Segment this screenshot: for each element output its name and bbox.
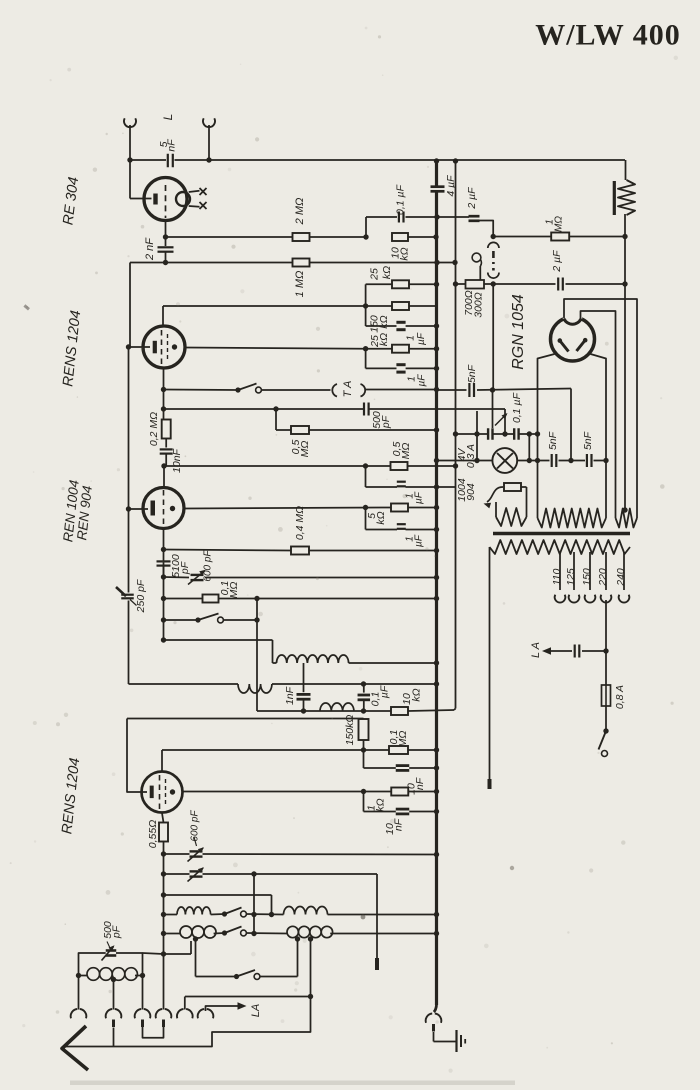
capacitor 5100pF bbox=[157, 554, 191, 578]
svg-text:150kΩ: 150kΩ bbox=[344, 715, 356, 746]
wire lamp bridge left bbox=[474, 411, 479, 463]
svg-text:5nF: 5nF bbox=[466, 364, 478, 383]
wire row711 bbox=[257, 708, 454, 713]
wire row349 bbox=[185, 346, 439, 351]
wire row550 bbox=[164, 548, 440, 553]
svg-text:110: 110 bbox=[551, 568, 563, 585]
capacitor 5nF row390 bbox=[466, 364, 478, 397]
tube RENS1204b envelope bbox=[142, 772, 183, 813]
svg-text:kΩ: kΩ bbox=[378, 333, 390, 346]
tube RE304 grid dash line bbox=[165, 185, 167, 218]
capacitor 10nF b bbox=[364, 792, 440, 835]
resistor 150k vertical bbox=[344, 715, 369, 753]
svg-text:2 µF: 2 µF bbox=[466, 187, 478, 210]
wire row430 bbox=[276, 427, 439, 432]
tube RGN1054 filament left bbox=[558, 338, 569, 351]
wire stub 349-368 bbox=[365, 349, 367, 369]
svg-text:1: 1 bbox=[406, 335, 417, 341]
capacitor 0.1uF pair left bbox=[488, 428, 492, 440]
wire row284 left bbox=[366, 282, 440, 287]
switch band A bbox=[211, 908, 284, 918]
wire rowA left bbox=[164, 914, 178, 916]
tube RE 304 envelope bbox=[144, 178, 187, 221]
capacitor 4uF bbox=[431, 175, 457, 197]
antenna coil tap bbox=[111, 977, 116, 1010]
capacitor 10nF grid bbox=[160, 439, 183, 473]
tube RE304 cathode bar bbox=[153, 194, 157, 205]
wire jack3 lead bbox=[142, 976, 144, 1010]
jack 5 bbox=[177, 1009, 193, 1027]
primary winding mid bbox=[538, 509, 607, 528]
secondary winding bbox=[490, 540, 631, 554]
svg-text:kΩ: kΩ bbox=[381, 266, 393, 279]
label RENS 1204 b bbox=[59, 757, 83, 835]
wire row284 right bbox=[453, 281, 625, 286]
wire row217 bbox=[366, 214, 469, 219]
svg-text:kΩ: kΩ bbox=[410, 688, 422, 701]
svg-text:MΩ: MΩ bbox=[400, 443, 412, 460]
capacitor 2uF upper bbox=[466, 187, 480, 221]
svg-text:T A: T A bbox=[342, 381, 354, 398]
wire x571 bbox=[568, 389, 573, 464]
x mark pin 2 bbox=[200, 202, 207, 209]
pot wiper arc upper bbox=[488, 242, 499, 248]
svg-text:2 µF: 2 µF bbox=[551, 250, 563, 273]
antenna ground arrow bbox=[62, 1026, 88, 1070]
resistor 0.1M band bbox=[203, 581, 240, 603]
svg-text:µF: µF bbox=[417, 374, 428, 387]
svg-text:L: L bbox=[161, 114, 175, 121]
wire tube3 bottom bbox=[161, 529, 166, 578]
svg-text:µF: µF bbox=[414, 534, 425, 547]
coil B2 tap 1 bbox=[295, 936, 300, 976]
wire row718 grid bbox=[127, 718, 364, 720]
wire row409 bbox=[164, 406, 506, 411]
wire anode tube2 top bbox=[162, 306, 164, 326]
wire x257 down bbox=[256, 599, 258, 712]
coil band 2 bbox=[277, 655, 440, 666]
x mark pin 1 bbox=[200, 188, 207, 195]
resistor 25k b bbox=[369, 333, 409, 353]
primary winding left bbox=[496, 502, 527, 526]
fuse 0.8A bbox=[602, 685, 626, 709]
wire tube3 top bbox=[163, 466, 165, 488]
resistor 25k a bbox=[368, 266, 409, 288]
svg-text:LA: LA bbox=[250, 1004, 262, 1017]
svg-text:kΩ: kΩ bbox=[398, 247, 410, 260]
capacitor 5nF antenna bbox=[158, 139, 178, 167]
wire stub 284-326 bbox=[363, 284, 368, 326]
wire RE304 cathode bbox=[163, 221, 168, 246]
svg-text:220: 220 bbox=[597, 568, 609, 587]
jack TA right arc bbox=[361, 384, 366, 397]
pot wiper dash bbox=[492, 251, 495, 271]
svg-text:kΩ: kΩ bbox=[375, 511, 387, 524]
switch band 2 bbox=[164, 614, 260, 623]
primary winding right bbox=[616, 507, 638, 527]
svg-text:0,55Ω: 0,55Ω bbox=[147, 820, 159, 848]
wire row236 right bbox=[491, 234, 626, 239]
trimmer 250pF bbox=[116, 579, 147, 613]
jack 3 bbox=[135, 1009, 151, 1027]
capacitor 0.1uF band bbox=[358, 684, 391, 711]
capacitor 2uF lower bbox=[551, 250, 563, 291]
jack link 3-4 bbox=[143, 1027, 164, 1038]
capacitor mains LA bbox=[530, 642, 606, 658]
switch mains bbox=[599, 731, 608, 757]
wire rowA right bbox=[328, 912, 440, 917]
tube RE304 filament wires bbox=[189, 191, 200, 207]
wire rowB right bbox=[330, 931, 439, 936]
wire tap220 down bbox=[603, 600, 608, 685]
resistor 0.55ohm bbox=[147, 820, 168, 848]
wire jack5 lead bbox=[184, 997, 186, 1010]
coil band 4 bbox=[320, 703, 354, 711]
wire row390 right bbox=[365, 387, 439, 392]
svg-text:10nF: 10nF bbox=[171, 448, 183, 473]
tube REN1004 grid line bbox=[163, 490, 165, 528]
wire tube2 bottom bbox=[161, 368, 166, 420]
svg-text:25: 25 bbox=[368, 268, 380, 281]
wire RGN fil right bbox=[591, 354, 607, 518]
capacitor 1uF b bbox=[366, 365, 440, 387]
wire 10nF down bbox=[161, 454, 166, 469]
trimmer arrow 0.1uF bbox=[495, 413, 508, 426]
svg-text:nF: nF bbox=[165, 139, 177, 152]
svg-text:1 MΩ: 1 MΩ bbox=[294, 271, 306, 298]
pot wiper arc lower bbox=[488, 273, 499, 279]
svg-text:0,2 MΩ: 0,2 MΩ bbox=[148, 412, 160, 446]
junction antenna bbox=[127, 157, 132, 162]
wire tube4 top bbox=[161, 750, 163, 771]
antenna coil bbox=[76, 968, 145, 981]
svg-text:MΩ: MΩ bbox=[397, 731, 409, 748]
antenna terminal 2 bbox=[203, 118, 215, 162]
label RE 304 bbox=[60, 176, 82, 226]
svg-text:pF: pF bbox=[110, 925, 122, 939]
wire x377 down bbox=[376, 874, 378, 970]
wire row466 bbox=[164, 463, 458, 468]
coil B1 tap bbox=[193, 936, 198, 976]
tube REN1004 anode dot bbox=[170, 506, 175, 511]
lamp 4V bbox=[434, 448, 517, 473]
resistor 700-300 pot bbox=[463, 280, 485, 318]
coil A2 bbox=[284, 907, 328, 915]
tube RENS1204b anode dot bbox=[170, 789, 175, 794]
trimmer 600pF b bbox=[164, 867, 378, 881]
capacitor 2nF bbox=[144, 237, 174, 261]
svg-text:600 pF: 600 pF bbox=[190, 810, 201, 842]
wire row306 bbox=[163, 305, 437, 307]
switch band B bbox=[214, 927, 287, 936]
svg-text:µF: µF bbox=[416, 332, 427, 345]
wire col163 bottom bbox=[161, 842, 166, 1010]
title W/LW 400 bbox=[535, 18, 681, 51]
resistor 2M bbox=[293, 198, 310, 241]
wire left rail mid bbox=[128, 347, 130, 509]
wire 409 corner down bbox=[504, 409, 506, 434]
svg-text:125: 125 bbox=[565, 568, 577, 586]
svg-text:240: 240 bbox=[615, 568, 627, 587]
wire wiper to caps bbox=[492, 390, 494, 428]
tap 110 bbox=[551, 552, 566, 603]
resistor heater bbox=[504, 483, 527, 517]
speaker LA arrow bbox=[206, 1002, 262, 1017]
label REN 904 bbox=[74, 485, 95, 541]
capacitor 10nF a bbox=[364, 750, 440, 795]
label RGN 1054 bbox=[510, 294, 527, 370]
wire row750 bbox=[162, 747, 439, 752]
svg-text:RGN 1054: RGN 1054 bbox=[510, 294, 527, 370]
wire to antenna arrow bbox=[66, 997, 311, 1047]
ground wire bbox=[434, 1041, 457, 1043]
scan smudge a bbox=[23, 304, 30, 310]
coil band 3 bbox=[238, 684, 272, 693]
jack 6 bbox=[198, 1009, 214, 1027]
wire bus2 bottom corner bbox=[454, 709, 456, 711]
svg-text:0,4 MΩ: 0,4 MΩ bbox=[294, 506, 306, 540]
wire 2uF jog bbox=[469, 217, 493, 237]
resistor 1M left bbox=[293, 259, 310, 298]
tap 150 bbox=[581, 552, 596, 603]
wire row263 bbox=[130, 260, 458, 265]
wire top row y160 bbox=[130, 159, 625, 161]
wire RGN fil left bbox=[538, 354, 555, 518]
svg-text:5nF: 5nF bbox=[547, 431, 559, 450]
switch band C bbox=[196, 970, 298, 979]
wire tube4 left grid bbox=[127, 719, 147, 793]
svg-text:1nF: 1nF bbox=[284, 686, 296, 705]
svg-text:5nF: 5nF bbox=[582, 431, 594, 450]
svg-text:0,1 µF: 0,1 µF bbox=[511, 392, 523, 423]
jack 2 bbox=[106, 1009, 122, 1047]
wire row237 bbox=[166, 236, 437, 238]
label 4V 0.3A bbox=[456, 444, 477, 468]
wire stub x366 bbox=[365, 217, 367, 237]
resistor 0.4M bbox=[291, 506, 309, 555]
svg-text:904: 904 bbox=[465, 483, 477, 501]
wire grid RE304 bbox=[130, 160, 152, 199]
capacitor 5nF heater a bbox=[547, 431, 559, 467]
capacitor 0.1uF bbox=[394, 184, 406, 222]
resistor mains dropper bbox=[614, 180, 635, 215]
coil A1 bbox=[177, 907, 211, 914]
wire RGN anode 2 bbox=[581, 311, 616, 518]
tap 220 bbox=[597, 552, 612, 603]
tube RENS 1204 envelope bbox=[143, 326, 185, 368]
scan edge bottom bbox=[70, 1081, 515, 1086]
label TA bbox=[342, 381, 354, 398]
svg-text:µF: µF bbox=[414, 491, 425, 504]
jack 1 bbox=[71, 1009, 87, 1027]
svg-text:MΩ: MΩ bbox=[554, 216, 565, 232]
wire heater row487 bbox=[437, 486, 456, 488]
wire row895 bbox=[164, 895, 272, 915]
svg-text:pF: pF bbox=[179, 561, 191, 575]
tube RENS1204 anode dot bbox=[172, 344, 177, 349]
capacitor 1uF a bbox=[366, 322, 440, 345]
tube REN1004 cathode bar bbox=[151, 501, 156, 516]
capacitor 1uF c bbox=[366, 466, 440, 504]
svg-text:150: 150 bbox=[581, 568, 593, 586]
wire tube2 left bbox=[126, 344, 150, 349]
svg-text:0,8 A: 0,8 A bbox=[614, 685, 626, 709]
resistor 10k bbox=[389, 233, 410, 261]
label 1004 904 bbox=[456, 478, 477, 502]
svg-text:nF: nF bbox=[414, 777, 426, 790]
resistor 1k bbox=[365, 788, 408, 812]
wire x625 down bbox=[622, 214, 627, 510]
wire fuse down bbox=[603, 706, 608, 734]
svg-text:L A: L A bbox=[530, 642, 542, 658]
svg-text:300Ω: 300Ω bbox=[472, 292, 484, 318]
svg-text:600 pF: 600 pF bbox=[203, 550, 214, 582]
trimmer 600pF a bbox=[164, 810, 440, 862]
capacitor 500pF coupling bbox=[364, 403, 392, 430]
tap 125 bbox=[565, 552, 580, 603]
wire row640 bbox=[164, 640, 277, 663]
coil B1 bbox=[180, 926, 216, 938]
resistor 0.5M b bbox=[391, 442, 412, 470]
wire row434 bbox=[453, 431, 540, 436]
svg-text:0,1 µF: 0,1 µF bbox=[394, 184, 406, 215]
tube RENS1204 screen line bbox=[167, 334, 169, 361]
wire row507 bbox=[184, 505, 439, 510]
tube RGN1054 filament right bbox=[577, 338, 588, 351]
antenna terminal 1 bbox=[124, 118, 136, 160]
wire left rail upper bbox=[129, 263, 131, 348]
capacitor 5nF heater b bbox=[582, 431, 594, 467]
tap 240 bbox=[615, 552, 630, 603]
resistor 150k bbox=[368, 302, 409, 333]
wire x254 bbox=[251, 874, 256, 936]
svg-text:250 pF: 250 pF bbox=[135, 579, 147, 613]
wire 2nF to row263 bbox=[163, 252, 168, 265]
switch TA bbox=[164, 384, 331, 393]
bus1 main HT rail bbox=[434, 158, 439, 1005]
wire row390 rgn bbox=[437, 387, 572, 392]
scan smudge c bbox=[361, 915, 366, 920]
tube RENS1204b grid line bbox=[159, 775, 161, 813]
tube RE304 anode loop bbox=[176, 192, 190, 206]
tube RGN1054 envelope bbox=[551, 312, 595, 362]
tube RENS1204b screen line bbox=[165, 779, 167, 806]
wire row577 bbox=[164, 575, 440, 580]
tube RENS1204 cathode bar bbox=[153, 341, 157, 354]
scan smudge b bbox=[510, 866, 514, 870]
wire secondary left bbox=[489, 547, 491, 789]
wire stub 409-430 bbox=[275, 409, 277, 430]
svg-text:2 MΩ: 2 MΩ bbox=[294, 198, 306, 226]
wire col163 lower bbox=[161, 566, 166, 643]
tube RENS1204 grid line bbox=[161, 330, 163, 368]
node L label bbox=[161, 114, 175, 121]
wire rowB left bbox=[164, 933, 181, 935]
heater loop arrow bbox=[484, 487, 504, 508]
svg-text:MΩ: MΩ bbox=[228, 582, 240, 599]
wire lamp bridge right bbox=[527, 434, 532, 463]
wire row684 bbox=[129, 683, 239, 685]
wire wiper down bbox=[492, 284, 494, 390]
wire 500pF frame bbox=[79, 941, 192, 976]
resistor 1M right bbox=[545, 216, 570, 241]
transformer core bbox=[493, 532, 630, 536]
svg-text:W/LW 400: W/LW 400 bbox=[535, 18, 681, 51]
coil B2 bbox=[287, 926, 333, 937]
svg-text:pF: pF bbox=[380, 415, 392, 429]
jack 4 bbox=[156, 1009, 172, 1027]
bus1 bottom plug bbox=[426, 1005, 442, 1042]
wire row791 bbox=[183, 789, 439, 794]
svg-text:2 nF: 2 nF bbox=[144, 237, 156, 261]
pot contact circle bbox=[472, 253, 481, 280]
junction row237 bbox=[363, 234, 438, 239]
wire row996 bbox=[185, 996, 311, 998]
bus2 rail bbox=[453, 158, 458, 708]
capacitor 0.1uF pair right bbox=[511, 392, 523, 439]
svg-text:MΩ: MΩ bbox=[299, 441, 311, 458]
wire lamp right bbox=[517, 458, 609, 463]
resistor 0.2M bbox=[148, 412, 171, 446]
resistor 10k b bbox=[391, 688, 422, 715]
wire top right corner bbox=[625, 160, 627, 180]
trimmer 500pF bbox=[102, 921, 123, 960]
resistor 5k bbox=[366, 504, 408, 525]
capacitor 1uF d bbox=[366, 508, 440, 547]
wire row598 bbox=[164, 596, 440, 601]
coil B2 tap 2 bbox=[308, 936, 313, 999]
wire jack1 lead bbox=[78, 976, 80, 1010]
trimmer 600pF band bbox=[188, 550, 214, 585]
label REN 1004 bbox=[60, 479, 81, 543]
label RENS 1204 bbox=[60, 310, 84, 388]
tube RENS1204b cathode bar bbox=[150, 786, 154, 799]
resistor 0.1M b bbox=[388, 730, 409, 754]
svg-text:kΩ: kΩ bbox=[374, 798, 386, 811]
svg-text:0,3 A: 0,3 A bbox=[465, 444, 477, 468]
wire RGN anode top bbox=[564, 299, 637, 518]
wire row684 right bbox=[272, 681, 439, 686]
svg-text:µF: µF bbox=[378, 685, 390, 698]
wire left rail lower bbox=[128, 509, 130, 684]
jack TA left arc bbox=[332, 384, 337, 397]
tube REN1004 envelope bbox=[143, 488, 184, 529]
resistor 0.5M a bbox=[290, 426, 311, 457]
capacitor 1nF bbox=[284, 663, 311, 714]
wire tube3 left bbox=[126, 506, 148, 511]
wire tube4 bottom bbox=[162, 813, 164, 823]
ground symbol bbox=[457, 1030, 466, 1052]
